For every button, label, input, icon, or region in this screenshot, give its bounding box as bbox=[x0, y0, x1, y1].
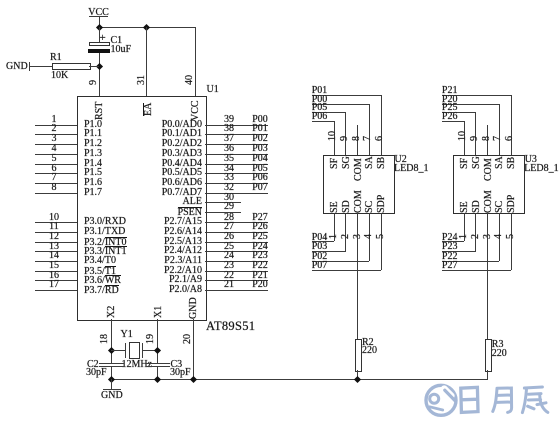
node P27 bbox=[511, 213, 512, 271]
pin 21 bbox=[205, 290, 268, 291]
IC U1 AT89S51 body bbox=[77, 96, 207, 321]
pin name SF bbox=[460, 157, 470, 168]
pin 11 bbox=[35, 232, 77, 233]
pin name P0.1 bbox=[162, 129, 202, 139]
pin 3 bbox=[483, 234, 493, 239]
label R1 bbox=[50, 53, 62, 63]
node P26 bbox=[250, 222, 270, 232]
node P22 bbox=[499, 213, 500, 261]
pin 7 bbox=[363, 136, 373, 141]
wire bbox=[146, 27, 147, 96]
pin 30 bbox=[205, 202, 241, 203]
pin name P2.7 bbox=[164, 217, 202, 227]
node P25 bbox=[442, 103, 458, 113]
pin 12 bbox=[35, 242, 77, 243]
label LED8_1 bbox=[524, 164, 558, 174]
pin name COM bottom bbox=[484, 190, 494, 213]
pin 27 bbox=[205, 232, 268, 233]
pin name P0.5 bbox=[162, 168, 202, 178]
pin name SG bbox=[472, 156, 482, 169]
node P03 bbox=[250, 144, 270, 154]
ground GND bbox=[6, 62, 28, 72]
resistor R2 bbox=[355, 339, 362, 372]
pin 18 bbox=[100, 334, 110, 344]
pin name SDP bottom bbox=[377, 194, 387, 212]
wire bbox=[487, 370, 488, 379]
pin name P1.1 bbox=[84, 129, 102, 139]
pin name P0.4 bbox=[162, 159, 202, 169]
pin 23 bbox=[205, 271, 268, 272]
pin 7 bbox=[493, 136, 503, 141]
value 220 bbox=[362, 346, 377, 356]
pin name P1.5 bbox=[84, 168, 102, 178]
pin name VCC bbox=[191, 100, 201, 121]
capacitor C1 bbox=[89, 42, 111, 47]
junction bbox=[154, 347, 161, 354]
wire bbox=[157, 319, 158, 364]
wire bbox=[157, 367, 158, 379]
pin name P2.6 bbox=[164, 227, 202, 237]
pin 9 bbox=[470, 136, 480, 141]
pin 37 bbox=[205, 144, 268, 145]
pin 25 bbox=[205, 251, 268, 252]
pin 3 bbox=[353, 234, 363, 239]
pin name P3.6 bbox=[84, 275, 121, 286]
pin 5 bbox=[376, 234, 386, 239]
node P23 bbox=[250, 251, 270, 261]
wire bbox=[111, 367, 112, 379]
node P05 bbox=[250, 164, 270, 174]
IC U3 LED8_1 bbox=[453, 155, 525, 215]
pin 33 bbox=[205, 183, 268, 184]
pin name SE bottom bbox=[460, 201, 470, 213]
pin 31 bbox=[137, 75, 147, 85]
pin 29 bbox=[205, 212, 241, 213]
node P21 bbox=[250, 271, 270, 281]
pin 2 bbox=[341, 234, 351, 239]
node P25 bbox=[250, 232, 270, 242]
pin 4 bbox=[364, 234, 374, 239]
wire bbox=[195, 27, 196, 96]
pin 6 bbox=[35, 173, 77, 174]
pin name P0.6 bbox=[162, 178, 202, 188]
wire bbox=[99, 27, 100, 42]
pin 38 bbox=[205, 134, 268, 135]
pin name SB bbox=[507, 156, 517, 168]
pin name P2.4 bbox=[164, 246, 202, 256]
wire bbox=[99, 16, 100, 42]
pin 8 stub bbox=[487, 125, 488, 154]
power VCC bbox=[88, 8, 110, 18]
pin 2 bbox=[35, 134, 77, 135]
node P06 bbox=[250, 173, 270, 183]
wire bbox=[111, 379, 488, 380]
node P04 bbox=[334, 213, 335, 242]
junction bbox=[96, 23, 103, 30]
pin 28 bbox=[205, 222, 268, 223]
pin name P1.6 bbox=[84, 178, 102, 188]
pin 6 bbox=[375, 136, 385, 141]
pin name P3.1 bbox=[84, 227, 125, 237]
wire bbox=[99, 27, 196, 28]
value 30pF bbox=[86, 368, 107, 378]
label AT89S51 bbox=[206, 321, 255, 331]
node P01 bbox=[250, 124, 270, 134]
node P07 bbox=[381, 213, 382, 271]
crystal Y1 bbox=[125, 343, 126, 358]
pin 6 bbox=[505, 136, 515, 141]
wire bbox=[193, 319, 194, 380]
pin 16 bbox=[35, 280, 77, 281]
node P05 bbox=[312, 103, 328, 113]
pin 17 bbox=[35, 290, 77, 291]
pin name SB bbox=[377, 156, 387, 168]
pin name SG bbox=[342, 156, 352, 169]
label U2 bbox=[395, 155, 407, 165]
node P26 bbox=[442, 112, 458, 122]
pin name SD bottom bbox=[342, 200, 352, 213]
node P00 bbox=[250, 115, 270, 125]
node P07 bbox=[250, 183, 270, 193]
junction bbox=[154, 376, 161, 383]
wire bbox=[487, 213, 488, 340]
node P02 bbox=[250, 134, 270, 144]
pin name COM bbox=[484, 158, 494, 181]
junction bbox=[354, 376, 361, 383]
pin 34 bbox=[205, 173, 268, 174]
node P22 bbox=[250, 261, 270, 271]
pin 40 bbox=[185, 75, 195, 85]
node P23 bbox=[475, 213, 476, 251]
pin name SE bottom bbox=[330, 201, 340, 213]
value 10uF bbox=[111, 45, 132, 55]
pin 10 bbox=[328, 131, 338, 141]
node P27 bbox=[250, 213, 270, 223]
pin name ALE bbox=[183, 197, 202, 207]
junction bbox=[108, 376, 115, 383]
label U1 bbox=[207, 85, 219, 95]
pin name COM bbox=[354, 158, 364, 181]
node P04 bbox=[250, 154, 270, 164]
pin 10 bbox=[35, 222, 77, 223]
pin name PSEN bbox=[178, 207, 202, 218]
ground bbox=[111, 379, 112, 389]
pin name P1.4 bbox=[84, 159, 102, 169]
pin name P3.5 bbox=[84, 266, 116, 277]
value 12MHz bbox=[122, 360, 153, 370]
pin name RST bbox=[95, 101, 105, 119]
junction bbox=[96, 63, 103, 70]
pin name P0.2 bbox=[162, 139, 202, 149]
pin 32 bbox=[205, 193, 268, 194]
pin 39 bbox=[205, 125, 268, 126]
node P03 bbox=[345, 213, 346, 251]
pin name P2.0 bbox=[169, 285, 202, 295]
pin name P1.2 bbox=[84, 139, 102, 149]
pin 15 bbox=[35, 271, 77, 272]
wire bbox=[99, 53, 100, 96]
value 220 bbox=[492, 349, 507, 359]
label C3 bbox=[171, 360, 183, 370]
node P00 bbox=[312, 95, 328, 105]
pin 3 bbox=[35, 144, 77, 145]
IC U2 LED8_1 bbox=[323, 155, 395, 215]
pin 8 stub bbox=[357, 125, 358, 154]
wire bbox=[89, 66, 100, 67]
pin name X1 bbox=[154, 306, 164, 318]
watermark logo bbox=[420, 378, 560, 422]
pin 8 bbox=[352, 136, 362, 141]
pin 24 bbox=[205, 261, 268, 262]
pin 1 bbox=[35, 125, 77, 126]
pin name P0.0 bbox=[162, 120, 202, 130]
pin name P2.2 bbox=[164, 266, 202, 276]
pin 22 bbox=[205, 280, 268, 281]
pin name P3.0 bbox=[84, 217, 126, 227]
value 30pF bbox=[170, 368, 191, 378]
pin name P0.3 bbox=[162, 149, 202, 159]
pin 14 bbox=[35, 261, 77, 262]
pin 19 bbox=[146, 334, 156, 344]
wire bbox=[357, 213, 358, 340]
junction bbox=[189, 376, 196, 383]
pin name P2.1 bbox=[169, 275, 202, 285]
pin 2 bbox=[471, 234, 481, 239]
label C1 bbox=[111, 36, 123, 46]
pin name SD bottom bbox=[472, 200, 482, 213]
pin 13 bbox=[35, 251, 77, 252]
wire bbox=[142, 350, 158, 351]
pin 8 bbox=[482, 136, 492, 141]
pin 26 bbox=[205, 242, 268, 243]
pin name SC bottom bbox=[495, 201, 505, 213]
pin name EA bbox=[143, 102, 153, 115]
wire bbox=[111, 319, 112, 364]
wire bbox=[29, 66, 53, 67]
pin 35 bbox=[205, 164, 268, 165]
pin name P1.7 bbox=[84, 188, 102, 198]
capacitor C2 bbox=[99, 363, 124, 364]
label R3 bbox=[492, 340, 504, 350]
pin name P0.7 bbox=[162, 188, 202, 198]
resistor R1 bbox=[52, 63, 91, 70]
wire bbox=[357, 370, 358, 379]
pin 10 bbox=[458, 131, 468, 141]
pin 5 bbox=[35, 164, 77, 165]
label C2 bbox=[87, 360, 99, 370]
pin 7 bbox=[35, 183, 77, 184]
node P24 bbox=[250, 242, 270, 252]
pin name SA bbox=[365, 156, 375, 169]
pin name SA bbox=[495, 156, 505, 169]
node P06 bbox=[312, 112, 328, 122]
label Y1 bbox=[121, 330, 133, 340]
pin name SDP bottom bbox=[507, 194, 517, 212]
pin name P3.2 bbox=[84, 237, 127, 248]
pin 9 bbox=[89, 80, 99, 85]
pin 1 bbox=[459, 234, 469, 239]
pin name P2.5 bbox=[164, 237, 202, 247]
pin 8 bbox=[35, 193, 77, 194]
resistor R3 bbox=[485, 339, 492, 372]
pin name SF bbox=[330, 157, 340, 168]
label U3 bbox=[525, 155, 537, 165]
pin 4 bbox=[494, 234, 504, 239]
label LED8_1 bbox=[394, 164, 428, 174]
node P21 bbox=[442, 86, 458, 96]
pin name X2 bbox=[107, 306, 117, 318]
pin name P1.0 bbox=[84, 120, 102, 130]
pin 9 bbox=[340, 136, 350, 141]
pin name COM bottom bbox=[354, 190, 364, 213]
junction bbox=[108, 347, 115, 354]
pin name P3.3 bbox=[84, 246, 127, 257]
pin 36 bbox=[205, 154, 268, 155]
pin name SC bottom bbox=[365, 201, 375, 213]
node P02 bbox=[369, 213, 370, 261]
pin name P1.3 bbox=[84, 149, 102, 159]
pin 5 bbox=[506, 234, 516, 239]
pin 4 bbox=[35, 154, 77, 155]
node P01 bbox=[312, 86, 328, 96]
capacitor C3 bbox=[146, 363, 171, 364]
value 10K bbox=[51, 71, 68, 81]
junction bbox=[143, 23, 150, 30]
node P24 bbox=[464, 213, 465, 242]
pin name P2.3 bbox=[164, 256, 202, 266]
pin 1 bbox=[329, 234, 339, 239]
pin name P3.7 bbox=[84, 285, 119, 296]
node P20 bbox=[250, 280, 270, 290]
label R2 bbox=[362, 338, 374, 348]
wire bbox=[111, 350, 125, 351]
pin 20 bbox=[183, 334, 193, 344]
node P20 bbox=[442, 95, 458, 105]
pin name GND bbox=[189, 297, 199, 319]
pin name P3.4 bbox=[84, 256, 116, 266]
